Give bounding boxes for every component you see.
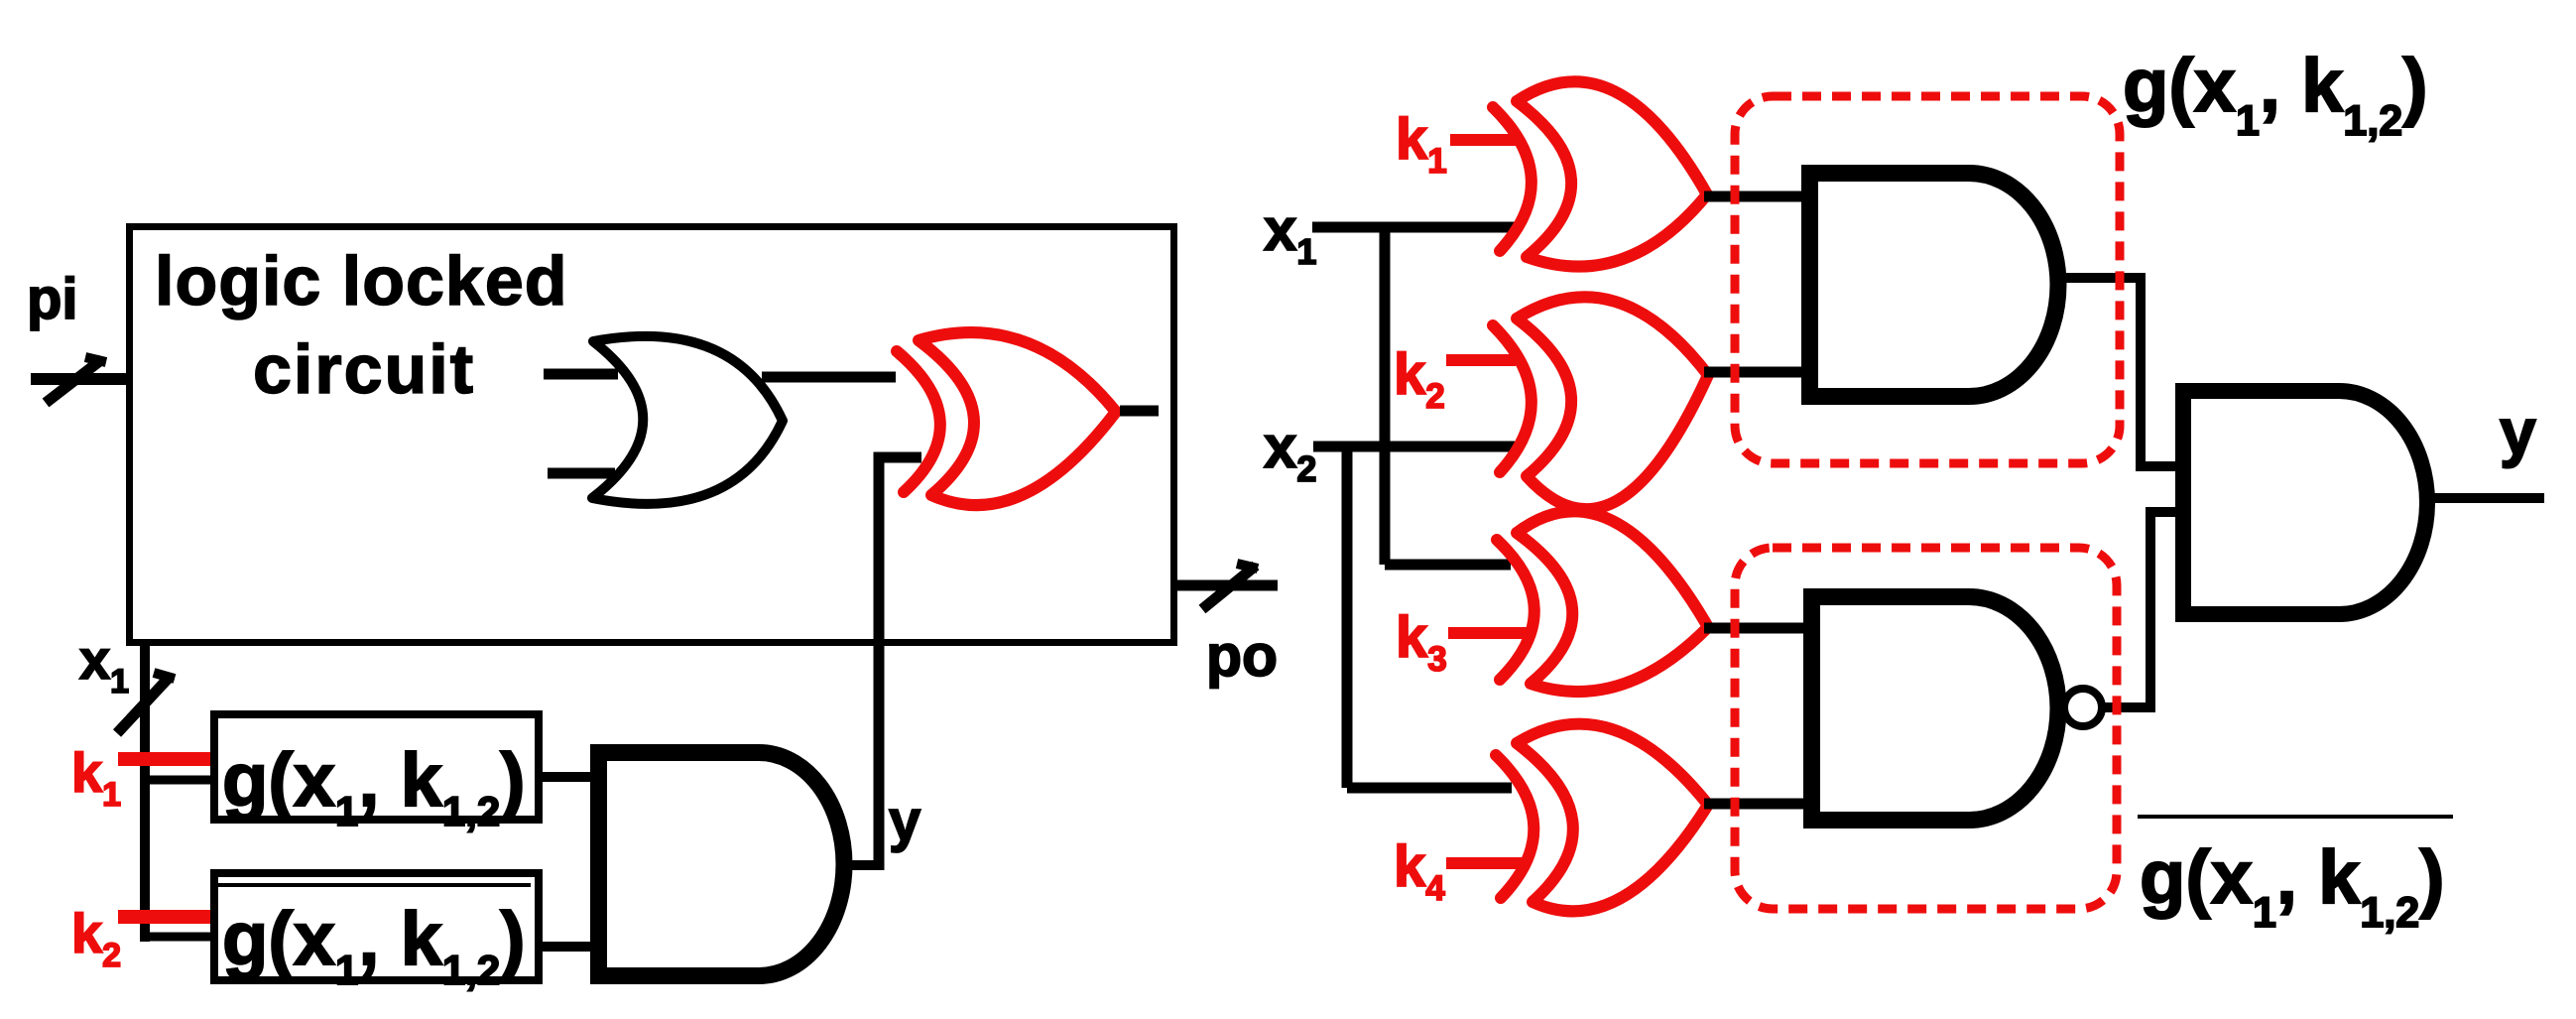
x2 input wire (right) <box>1313 442 1515 452</box>
x1 branch vertical wire <box>1380 227 1391 565</box>
overline of bottom-right label <box>2138 815 2453 819</box>
k1 key wire (red) <box>1450 134 1516 146</box>
wire: x1 into g-box 2 <box>145 933 210 942</box>
pi input wire <box>31 373 126 385</box>
XOR U2 output stub <box>1120 406 1159 417</box>
k2 key wire (red, left) <box>118 910 210 924</box>
k3 key wire (red) <box>1448 627 1529 639</box>
node y feedback wire to XOR U2 second input <box>879 457 921 870</box>
svg-text:logic locked: logic locked <box>155 242 568 319</box>
red dashed box: g-bar group <box>1735 548 2117 909</box>
AND gate U3 (left) <box>599 753 845 976</box>
final AND gate U10 <box>2183 391 2427 614</box>
OR gate U1 inside block <box>592 336 783 504</box>
k2 key wire (red) <box>1446 354 1516 366</box>
wire: OR U1 output to XOR U2 <box>762 372 896 383</box>
AND U3 output wire to node y <box>843 860 884 870</box>
OR gate U1 top input stub <box>544 369 618 380</box>
x1 vertical wire (left circuit) <box>140 643 150 942</box>
g-box 2 overline <box>214 883 531 887</box>
wire: NAND U9 output to final AND <box>2104 512 2179 707</box>
NAND gate U9 (bottom right) <box>1812 597 2059 821</box>
label: logic locked circuit <box>155 242 568 408</box>
g-bar(x1,k1,2) function box 2 <box>214 873 539 980</box>
x1 bus-width slash (left) <box>117 673 175 733</box>
XOR U7 output wire <box>1704 799 1812 810</box>
XOR key-gate U5 (red, k2) <box>1493 297 1708 509</box>
wire: x1 into g-box 1 <box>145 776 210 785</box>
XOR U5 output wire <box>1704 367 1810 378</box>
x2 branch vertical wire <box>1342 446 1353 788</box>
wire: AND U8 output to final AND <box>2053 278 2179 466</box>
XOR key-gate U6 (red, k3) <box>1497 511 1708 692</box>
g-box 2 output wire <box>539 942 599 952</box>
XOR U4 output wire <box>1704 191 1810 202</box>
po output wire <box>1174 580 1278 591</box>
XOR key-gate U2 (red) <box>897 332 1116 505</box>
XOR U6 output wire <box>1704 623 1812 634</box>
XOR key-gate U4 (red, k1) <box>1493 81 1707 266</box>
OR gate U1 bottom input stub <box>548 468 615 479</box>
k1 key wire (red, left) <box>118 752 210 766</box>
svg-text:po: po <box>1206 623 1278 689</box>
AND gate U8 (top right) <box>1810 174 2059 397</box>
x1 input wire (right) <box>1312 222 1516 233</box>
po bus-width slash <box>1202 564 1258 609</box>
svg-text:pi: pi <box>27 267 78 331</box>
wire: x2 branch to XOR U7 input <box>1347 783 1512 794</box>
wire: x1 branch to XOR U6 input <box>1385 560 1511 571</box>
g(x1,k1,2) function box 1 <box>214 714 539 820</box>
logic locked circuit block outline <box>130 227 1174 643</box>
output y wire (right) <box>2427 493 2544 503</box>
pi bus-width slash <box>46 357 106 403</box>
NAND U9 inversion bubble <box>2064 689 2102 726</box>
svg-text:y: y <box>889 789 920 853</box>
red dashed box: g(x1,k1,2) group <box>1735 96 2120 463</box>
svg-text:circuit: circuit <box>253 330 475 408</box>
XOR key-gate U7 (red, k4) <box>1496 724 1708 912</box>
g-box 1 output wire <box>539 772 599 782</box>
k4 key wire (red) <box>1446 857 1522 869</box>
svg-text:y: y <box>2500 395 2536 468</box>
